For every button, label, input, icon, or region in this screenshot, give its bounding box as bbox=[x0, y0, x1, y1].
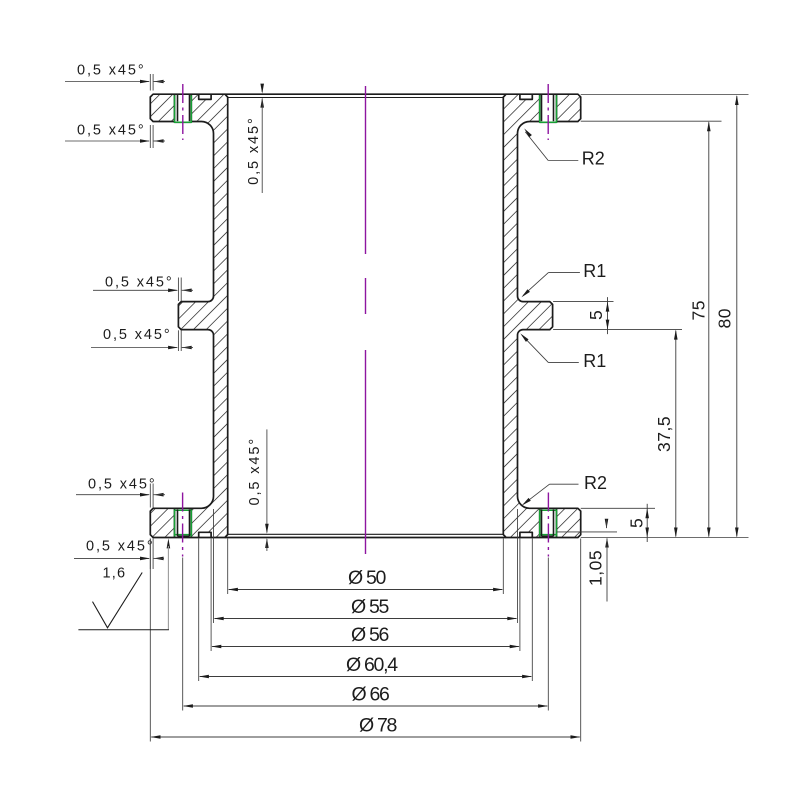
svg-text:0,5 x45°: 0,5 x45° bbox=[77, 63, 146, 79]
radius label R1 lower-right bbox=[519, 332, 606, 371]
chamfer dim 0,5x45 bottom bore (rotated) bbox=[247, 429, 269, 551]
extension line bottom face to 80 dim bbox=[581, 537, 749, 539]
svg-text:R1: R1 bbox=[583, 261, 606, 281]
extension line bottom flange top to 5 dim bbox=[581, 507, 655, 509]
top bore chamfer silhouette line bbox=[228, 97, 504, 99]
bottom-right groove inner slot (black walls) bbox=[542, 509, 554, 536]
hatching right wall section bbox=[0, 80, 800, 550]
svg-text:R2: R2 bbox=[584, 473, 607, 493]
svg-text:R2: R2 bbox=[582, 148, 605, 168]
chamfer dim 0,5x45 mid-left upper bbox=[93, 275, 193, 302]
part outline right half (mirrored) bbox=[503, 94, 580, 537]
dimension 80 bbox=[715, 95, 739, 538]
svg-text:37,5: 37,5 bbox=[654, 416, 674, 452]
diameter dim Ø55 bbox=[214, 509, 518, 623]
radius label R2 bottom-right bbox=[521, 473, 607, 507]
svg-text:0,5 x45°: 0,5 x45° bbox=[246, 116, 262, 185]
radius label R2 top-right bbox=[523, 127, 605, 168]
svg-text:R1: R1 bbox=[583, 351, 606, 371]
extension line flange underside to 75 dim bbox=[581, 120, 722, 122]
chamfer dim 0,5x45 top-left upper bbox=[65, 63, 165, 91]
svg-text:5: 5 bbox=[586, 310, 606, 320]
chamfer dim 0,5x45 bottom-left lower bbox=[74, 539, 164, 570]
svg-text:0,5 x45°: 0,5 x45° bbox=[103, 327, 172, 343]
top-right seal groove (green profile) bbox=[540, 95, 557, 122]
svg-text:0,5 x45°: 0,5 x45° bbox=[88, 477, 157, 493]
main vertical centerline bbox=[365, 86, 367, 554]
part outline left half (flanges, wall, chamfers, fillets) bbox=[150, 94, 227, 537]
svg-text:Ø 56: Ø 56 bbox=[351, 624, 389, 646]
extension line top face to 80 dim bbox=[581, 94, 749, 96]
extension line groove bottom to 1,05 dim bbox=[557, 531, 617, 533]
bottom bore chamfer silhouette line bbox=[228, 533, 504, 535]
svg-text:0,5 x45°: 0,5 x45° bbox=[247, 437, 263, 506]
bottom-left groove inner slot (black walls) bbox=[178, 509, 190, 536]
hatching left wall section bbox=[0, 80, 800, 550]
svg-text:0,5 x45°: 0,5 x45° bbox=[105, 275, 174, 291]
surface finish leader arrow to bottom face bbox=[78, 538, 170, 629]
svg-text:Ø 66: Ø 66 bbox=[352, 684, 390, 706]
svg-text:1,05: 1,05 bbox=[586, 550, 606, 586]
bottom-right groove centerline bbox=[547, 493, 549, 557]
diameter dim Ø78 bbox=[150, 539, 580, 742]
chamfer dim 0,5x45 top-left lower bbox=[65, 123, 165, 149]
svg-text:80: 80 bbox=[715, 308, 735, 328]
svg-text:0,5 x45°: 0,5 x45° bbox=[86, 539, 155, 555]
top-right groove inner slot (black walls) bbox=[542, 94, 554, 121]
chamfer dim 0,5x45 bottom-left upper bbox=[76, 477, 165, 508]
chamfer dim 0,5x45 mid-left lower bbox=[91, 327, 193, 351]
surface finish symbol 1,6 bbox=[93, 566, 143, 628]
svg-text:Ø 50: Ø 50 bbox=[348, 567, 387, 589]
svg-text:Ø 78: Ø 78 bbox=[359, 715, 397, 737]
dimension 75 bbox=[688, 121, 710, 537]
diameter dim Ø56 bbox=[211, 539, 520, 652]
bottom-left groove centerline bbox=[182, 493, 184, 557]
bottom face edge across bore bbox=[225, 537, 506, 539]
svg-text:0,5 x45°: 0,5 x45° bbox=[77, 123, 146, 139]
top-right groove break in flange underside bbox=[541, 120, 556, 123]
svg-text:Ø 60,4: Ø 60,4 bbox=[346, 654, 398, 676]
svg-text:1,6: 1,6 bbox=[103, 566, 127, 582]
svg-text:5: 5 bbox=[627, 518, 647, 528]
dimension 5 (bottom flange thickness) bbox=[627, 504, 650, 542]
top-right groove centerline bbox=[547, 84, 549, 140]
top-left groove inner slot (black walls) bbox=[178, 94, 190, 121]
dimension 37,5 bbox=[654, 330, 678, 538]
svg-text:75: 75 bbox=[688, 300, 708, 320]
extension line mid flange top to 5 dim bbox=[553, 301, 613, 303]
extension line mid flange bottom to 37,5 dim bbox=[553, 329, 682, 331]
dimension 5 (mid flange thickness) bbox=[586, 297, 609, 334]
radius label R1 upper-right bbox=[520, 261, 606, 299]
chamfer dim 0,5x45 top bore (rotated) bbox=[246, 84, 264, 193]
bottom-right seal groove (green profile) bbox=[540, 510, 557, 536]
top face edge across bore bbox=[225, 93, 506, 95]
bottom-left seal groove (green profile) bbox=[175, 510, 192, 536]
top-left seal groove (green profile) bbox=[175, 95, 192, 122]
diameter dim Ø50 bbox=[228, 539, 504, 595]
diameter dim Ø60,4 bbox=[199, 539, 533, 682]
diameter dim Ø66 bbox=[183, 558, 549, 711]
top-left groove break in flange underside bbox=[175, 120, 190, 123]
top-left groove centerline bbox=[182, 84, 184, 140]
svg-text:Ø 55: Ø 55 bbox=[351, 596, 390, 618]
dimension 1,05 bbox=[586, 519, 609, 602]
